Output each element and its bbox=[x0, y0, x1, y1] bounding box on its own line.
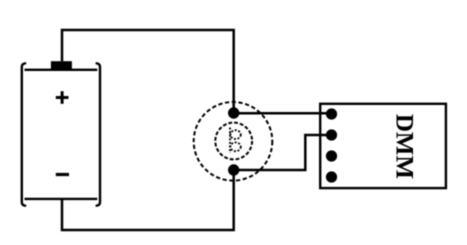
battery B1 left edge bbox=[22, 63, 25, 205]
wire battery top to lamp top (top rail) bbox=[62, 30, 234, 113]
battery B1 top edge bbox=[25, 69, 98, 71]
svg-text:DMM: DMM bbox=[391, 114, 418, 179]
DMM meter body bbox=[320, 104, 446, 188]
DMM terminal 1 bbox=[326, 108, 337, 119]
lamp L1 outer envelope (dashed circle) bbox=[194, 102, 273, 181]
wire lamp bottom node to DMM terminal 2 bbox=[234, 135, 332, 170]
battery B1 bottom edge bbox=[25, 198, 98, 200]
node top of lamp bbox=[228, 107, 239, 118]
node bottom of lamp bbox=[228, 164, 239, 175]
battery plus label bbox=[56, 91, 69, 104]
lamp L1 filament coil bbox=[230, 128, 241, 154]
wire battery bottom to lamp bottom (bottom rail) bbox=[62, 170, 234, 230]
lamp L1 inner circle (dashed) bbox=[215, 123, 252, 160]
battery B1 right edge bbox=[97, 63, 100, 205]
battery B1 positive terminal nub bbox=[51, 61, 72, 70]
battery minus label bbox=[56, 173, 69, 176]
DMM terminal 3 bbox=[326, 150, 337, 161]
wire lamp top node to DMM terminal 1 bbox=[234, 112, 332, 115]
DMM terminal 2 bbox=[326, 129, 337, 140]
DMM terminal 4 bbox=[326, 171, 337, 182]
